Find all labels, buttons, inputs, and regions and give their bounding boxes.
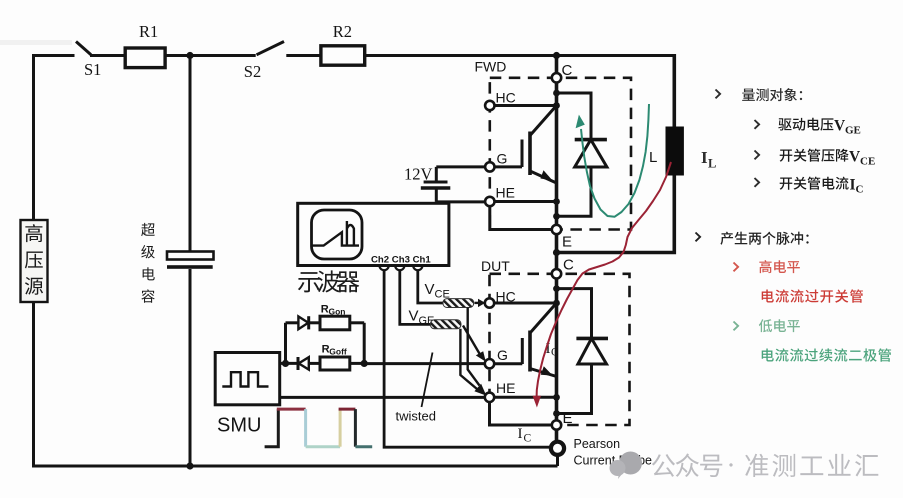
svg-text:Ch2 Ch3 Ch1: Ch2 Ch3 Ch1: [371, 255, 431, 266]
svg-text:HC: HC: [496, 90, 516, 106]
green freewheel current loop: [581, 104, 649, 217]
resistor R1: [125, 48, 165, 68]
annotation: measured objects: [716, 90, 721, 99]
label 示波器: [298, 272, 320, 292]
svg-text:CE: CE: [860, 156, 875, 168]
svg-text:Goff: Goff: [329, 347, 347, 357]
node top of main leg: [553, 52, 560, 59]
svg-text:C: C: [563, 257, 574, 274]
watermark text: [652, 454, 675, 477]
VGE twisted pair bar: [430, 320, 461, 329]
wire Ch2 to current probe: [384, 271, 550, 447]
wire bottom rail: [32, 465, 558, 468]
wire gate to DUT G: [364, 362, 485, 365]
svg-text:R1: R1: [139, 22, 158, 41]
svg-text:SMU: SMU: [217, 415, 261, 437]
wire SMU to gate network: [280, 362, 298, 365]
transistor FWD IGBT: [530, 106, 557, 136]
wire Ch3 to VGE probe: [400, 271, 431, 324]
svg-text:E: E: [563, 410, 573, 427]
svg-text:HE: HE: [496, 185, 515, 201]
svg-text:DUT: DUT: [481, 258, 510, 274]
inductor L: [666, 127, 684, 176]
wire main center leg: [555, 56, 559, 74]
node left junction: [282, 360, 289, 367]
wire Rgon branch: [286, 321, 299, 324]
wire SMU emitter return to DUT HE: [280, 396, 485, 399]
wire VCE to HE arrow: [468, 308, 480, 386]
capacitor 超级电容: [167, 252, 214, 260]
svg-text:G: G: [497, 151, 508, 167]
svg-text:G: G: [497, 347, 508, 363]
node E FWD: [552, 225, 561, 234]
switch S1: [76, 42, 91, 55]
wire DUT HC: [553, 300, 560, 307]
svg-text:I: I: [518, 426, 523, 442]
wire FWD diode bottom: [553, 213, 560, 220]
wire right rail: [672, 54, 676, 128]
wire Ch1 to VCE probe: [418, 271, 443, 303]
wire FWD HC: [553, 102, 560, 109]
wire G FWD to battery: [436, 165, 485, 168]
resistor RGoff: [320, 357, 350, 370]
svg-text:R2: R2: [333, 22, 352, 41]
SMU box: [215, 353, 280, 405]
HV source box 高压源: [21, 220, 48, 302]
waveform double pulse: [265, 409, 279, 447]
FWD module dashed box: [490, 78, 631, 230]
svg-text:HE: HE: [496, 380, 515, 396]
node G FWD: [485, 162, 494, 171]
svg-text:S1: S1: [84, 60, 101, 79]
VCE twisted pair bar: [443, 299, 474, 308]
svg-text:E: E: [562, 234, 572, 251]
battery 12V: [424, 181, 448, 184]
svg-text:C: C: [551, 347, 559, 359]
node G DUT: [485, 359, 494, 368]
wire top rail right: [365, 54, 674, 57]
node C FWD: [552, 73, 561, 82]
wire top rail left segment: [32, 54, 75, 57]
wire capacitor branch: [189, 56, 192, 252]
resistor RGon: [320, 316, 350, 330]
diode FWD freewheeling: [575, 138, 607, 142]
wire FWD HE to E: [490, 206, 551, 230]
wire left rail: [32, 54, 35, 220]
svg-text:V: V: [409, 308, 419, 325]
node mid junction to load: [553, 249, 560, 256]
svg-text:C: C: [856, 184, 864, 196]
oscilloscope icon: [312, 210, 363, 259]
svg-text:Pearson: Pearson: [574, 437, 621, 451]
watermark chat icon: [619, 452, 642, 475]
DUT module dashed box: [490, 274, 630, 425]
svg-text:C: C: [524, 433, 532, 445]
svg-text:I: I: [701, 148, 708, 167]
node C DUT: [552, 269, 561, 278]
wire VGE to G arrow: [463, 326, 480, 355]
svg-text:FWD: FWD: [475, 59, 507, 75]
wire VGE to HE arrow: [460, 329, 477, 389]
diode D-off: [297, 357, 300, 370]
arrow VCE to HC: [475, 302, 479, 304]
wire DUT diode top feed: [553, 285, 560, 292]
wire top rail mid: [165, 54, 256, 57]
svg-text:12V: 12V: [404, 165, 433, 184]
switch S2: [257, 42, 285, 55]
svg-text:C: C: [562, 62, 573, 79]
svg-text:GE: GE: [845, 125, 861, 137]
wire DUT HE: [553, 394, 560, 401]
svg-text:HC: HC: [496, 289, 516, 305]
oscilloscope box: [298, 203, 449, 265]
svg-text:L: L: [649, 149, 657, 166]
transistor DUT IGBT: [530, 303, 557, 333]
wire FWD HE: [553, 198, 560, 205]
Pearson current probe: [551, 442, 564, 455]
diode DUT freewheeling: [576, 337, 608, 341]
resistor R2: [321, 46, 365, 65]
node E DUT: [552, 420, 561, 429]
diode D-on: [298, 316, 308, 329]
node right junction: [361, 360, 368, 367]
svg-text:twisted: twisted: [396, 409, 436, 424]
wire DUT HE to E: [490, 402, 552, 425]
node cap/bottom: [186, 462, 193, 469]
svg-text:V: V: [425, 281, 435, 298]
svg-text:Gon: Gon: [329, 307, 346, 317]
red switch current loop: [537, 162, 671, 397]
wire FWD diode top feed: [553, 90, 560, 97]
svg-text:S2: S2: [244, 62, 261, 81]
node junction R1/C: [186, 52, 193, 59]
annotation: two pulses: [696, 233, 701, 242]
wire DUT diode bottom: [553, 410, 560, 417]
scope connector sockets: [380, 266, 389, 271]
svg-text:L: L: [708, 157, 716, 171]
